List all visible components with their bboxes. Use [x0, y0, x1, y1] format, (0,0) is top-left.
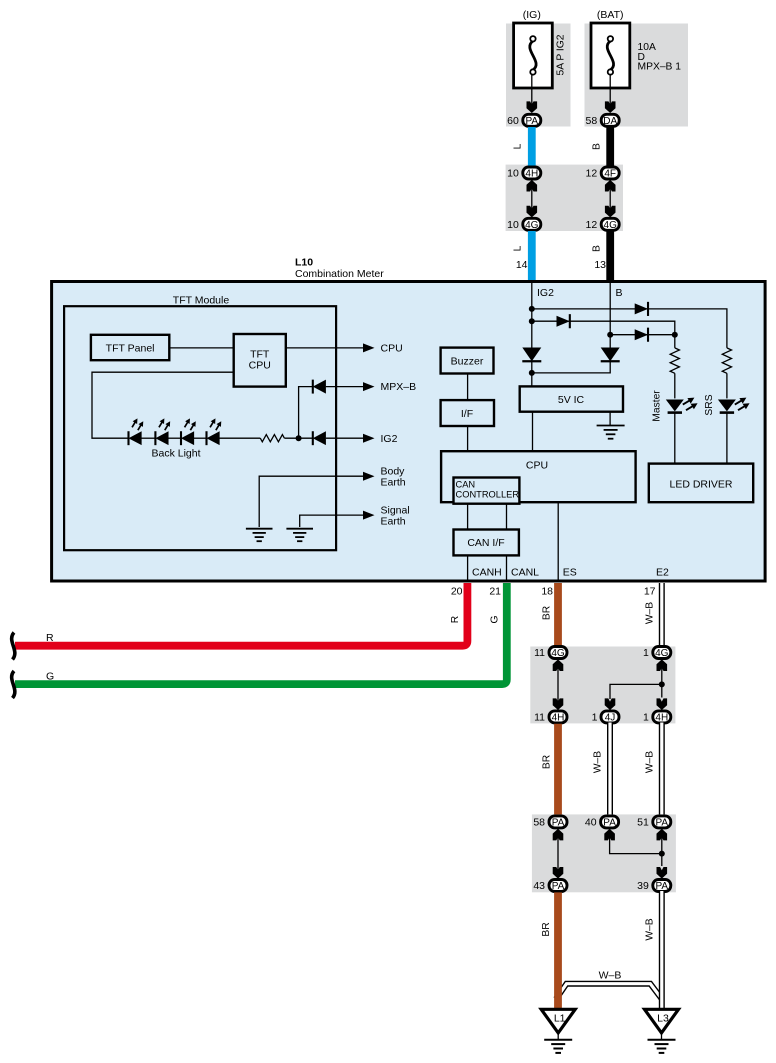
svg-text:R: R — [450, 616, 461, 623]
connector 4H pin 10 — [507, 167, 541, 180]
svg-text:PA: PA — [552, 818, 565, 829]
diode IG2 input — [313, 431, 326, 445]
svg-text:4J: 4J — [605, 713, 616, 724]
svg-text:PA: PA — [655, 818, 668, 829]
svg-text:CONTROLLER: CONTROLLER — [456, 490, 520, 500]
junction block shading — [530, 647, 675, 724]
svg-text:Back Light: Back Light — [151, 448, 200, 460]
svg-text:58: 58 — [533, 817, 545, 829]
fuse P IG2 (IG) — [514, 23, 553, 88]
svg-text:1: 1 — [643, 712, 649, 724]
backlight LED 3 — [181, 417, 198, 445]
diode on IG2-Master rail — [556, 314, 569, 328]
wire B (black) 4G to meter — [606, 231, 614, 280]
label TFT CPU — [249, 349, 271, 372]
wire SRS LED to LED driver — [726, 413, 728, 464]
svg-text:60: 60 — [507, 115, 519, 127]
TFT Module box — [64, 306, 336, 550]
svg-text:IG2: IG2 — [537, 287, 554, 299]
wire Master LED to LED driver — [674, 413, 676, 464]
connector PA pin 43 — [533, 880, 567, 893]
junction link 4G-4H — [553, 659, 564, 710]
connector PA pin 60 — [507, 114, 541, 127]
node 5V input — [529, 370, 535, 376]
LED DRIVER box — [649, 464, 753, 503]
connector 4G pin 1 — [643, 647, 671, 660]
svg-text:20: 20 — [451, 586, 463, 598]
svg-text:5V IC: 5V IC — [558, 394, 585, 406]
svg-text:1: 1 — [592, 712, 598, 724]
svg-text:SRS: SRS — [704, 394, 715, 415]
wire B diode to node — [532, 361, 610, 373]
wire LED4 to resistor — [220, 437, 261, 439]
connector 4F pin 12 — [586, 167, 620, 180]
connector PA pin 51 — [637, 816, 671, 829]
fuse D MPX-B (BAT) — [591, 23, 630, 88]
wire BR (ES) meter to 4G — [554, 583, 562, 646]
connector 4G pin 11 — [534, 647, 567, 660]
wire node to MPX-B diode — [299, 387, 313, 439]
label Body Earth — [381, 466, 406, 489]
svg-text:PA: PA — [655, 881, 668, 892]
wire L (blue) 4G to meter — [528, 231, 536, 280]
svg-text:Buzzer: Buzzer — [451, 355, 484, 367]
wire BR 4H to PA — [554, 724, 562, 815]
wire IG2 to SRS (top rail) — [532, 309, 727, 348]
arrow Signal Earth — [363, 511, 375, 520]
svg-text:CAN: CAN — [456, 480, 476, 490]
svg-text:B: B — [592, 143, 603, 150]
svg-text:CAN I/F: CAN I/F — [467, 537, 504, 549]
arrow CPU — [363, 343, 375, 352]
svg-text:BR: BR — [541, 606, 552, 620]
svg-text:11: 11 — [534, 712, 545, 724]
svg-text:18: 18 — [541, 586, 553, 598]
wire buzzer to I/F — [467, 374, 469, 401]
wire I/F to CPU — [467, 426, 469, 451]
svg-text:R: R — [46, 632, 54, 644]
svg-text:W–B: W–B — [593, 751, 604, 773]
wire W-B 4J to PA — [607, 723, 613, 818]
wire — [194, 437, 207, 439]
wire BR PA43 to L1 — [554, 892, 562, 1009]
wire IG2 to Master rail — [532, 321, 675, 335]
wire CAN controller to CAN I/F left — [467, 504, 469, 530]
svg-text:17: 17 — [644, 586, 656, 598]
svg-text:W–B: W–B — [645, 602, 656, 624]
I/F box — [441, 400, 494, 426]
svg-text:CANL: CANL — [511, 567, 539, 579]
resistor Master — [670, 348, 679, 373]
diode on IG2-SRS rail — [635, 302, 648, 316]
wire W-B crossover L1-L3 — [556, 984, 662, 999]
CAN I/F box — [454, 530, 519, 556]
wire TFT CPU to backlight — [92, 372, 234, 438]
svg-text:39: 39 — [637, 880, 649, 892]
svg-text:CPU: CPU — [526, 460, 548, 472]
svg-text:B: B — [616, 287, 623, 299]
node backlight junction — [296, 435, 302, 441]
svg-text:W–B: W–B — [599, 970, 622, 982]
fuse block shading (IG) — [506, 24, 571, 127]
connector PA pin 39 — [637, 880, 671, 893]
resistor backlight — [260, 435, 284, 442]
diode B to 5V — [601, 348, 620, 362]
break symbol R wire — [12, 633, 15, 660]
svg-text:MPX–B: MPX–B — [381, 381, 417, 393]
connector PA pin 58 — [533, 816, 567, 829]
backlight LED 1 — [129, 417, 146, 445]
connector 4H pin 11 — [534, 711, 567, 724]
svg-text:CPU: CPU — [381, 343, 403, 355]
node PA branch — [659, 851, 665, 857]
svg-text:21: 21 — [489, 586, 501, 598]
svg-text:4H: 4H — [525, 169, 538, 180]
TFT Panel box — [91, 335, 169, 360]
connector DA pin 58 — [586, 114, 620, 127]
LED SRS — [718, 395, 751, 413]
junction link 4H-4G — [527, 180, 538, 218]
connector 4G pin 12 — [586, 218, 620, 231]
svg-text:L10: L10 — [295, 257, 313, 269]
wire G (green CANL) — [15, 583, 507, 684]
wire — [674, 373, 676, 398]
svg-text:B: B — [592, 245, 603, 252]
wire B (black) DA to 4F — [606, 127, 614, 167]
svg-text:Master: Master — [652, 390, 663, 422]
svg-text:LED DRIVER: LED DRIVER — [669, 478, 732, 490]
wire CAN controller to CAN I/F right — [506, 504, 508, 530]
wire fuse BAT to DA — [609, 75, 611, 108]
wire W-B PA39 to L3 — [659, 891, 665, 1009]
TFT CPU box — [234, 334, 286, 387]
wire Master branch — [674, 335, 676, 348]
svg-text:1: 1 — [643, 647, 649, 659]
node Master rail join — [672, 332, 678, 338]
junction link 4F-4G — [605, 180, 616, 218]
svg-text:(IG): (IG) — [523, 9, 541, 21]
node IG2 rail1 — [529, 306, 535, 312]
ground point L3 — [645, 1009, 679, 1039]
svg-text:CPU: CPU — [249, 360, 271, 372]
svg-text:G: G — [489, 615, 500, 623]
svg-text:5A P IG2: 5A P IG2 — [556, 34, 567, 75]
wire ES from CPU — [557, 502, 559, 580]
ground signal earth — [286, 529, 313, 542]
svg-text:W–B: W–B — [645, 918, 656, 940]
resistor SRS — [722, 348, 731, 373]
arrow IG2 — [363, 434, 375, 443]
wire PA40/PA51 branch — [610, 835, 662, 866]
diode on B-Master rail — [635, 328, 648, 342]
svg-text:Earth: Earth — [381, 515, 406, 527]
svg-text:G: G — [46, 671, 54, 683]
svg-text:CANH: CANH — [472, 567, 502, 579]
ground point L1 — [541, 1009, 575, 1039]
ground body earth — [246, 529, 273, 542]
junction block shading — [506, 165, 623, 231]
svg-text:BR: BR — [541, 922, 552, 936]
svg-text:51: 51 — [637, 817, 649, 829]
wire CANH — [467, 555, 469, 580]
wire L (blue) PA to 4H — [528, 127, 536, 167]
node IG2 rail2 — [529, 318, 535, 324]
wire signal earth — [300, 515, 365, 527]
svg-text:4G: 4G — [655, 648, 669, 659]
wire 5V IC to CPU — [532, 412, 534, 452]
wire — [168, 437, 181, 439]
CAN CONTROLLER box — [454, 478, 520, 504]
wire IG2 diode to node — [531, 361, 533, 386]
ground 5V IC — [597, 426, 625, 439]
svg-text:TFT Panel: TFT Panel — [106, 342, 155, 354]
svg-text:W–B: W–B — [645, 751, 656, 773]
svg-text:L1: L1 — [554, 1013, 566, 1025]
wire CANL — [506, 555, 508, 580]
connector 4H pin 1 — [643, 711, 671, 724]
arrow MPX-B — [363, 382, 375, 391]
svg-text:11: 11 — [534, 647, 545, 659]
wire 5V IC to ground — [609, 412, 611, 426]
svg-text:13: 13 — [594, 259, 606, 271]
svg-text:10: 10 — [507, 168, 519, 180]
junction block shading — [532, 814, 676, 892]
5V IC box — [520, 386, 623, 411]
wire — [142, 437, 156, 439]
backlight LED 2 — [155, 417, 172, 445]
wire diode to IG2 arrow — [326, 437, 365, 439]
svg-text:10: 10 — [507, 219, 519, 231]
svg-text:L: L — [513, 245, 524, 251]
label CAN CONTROLLER — [456, 480, 520, 500]
svg-text:I/F: I/F — [461, 408, 473, 420]
wire fuse IG to PA — [531, 75, 533, 108]
ground L1 — [544, 1040, 572, 1053]
svg-text:14: 14 — [516, 259, 528, 271]
diode IG2 to 5V — [522, 348, 541, 362]
diode MPX-B input — [313, 380, 326, 394]
connector 4J pin 1 — [592, 711, 619, 724]
LED Master — [666, 395, 699, 413]
svg-text:MPX–B 1: MPX–B 1 — [638, 62, 682, 73]
label Signal Earth — [381, 504, 410, 527]
svg-text:IG2: IG2 — [381, 433, 398, 445]
wire TFT CPU to CPU arrow — [286, 347, 365, 349]
svg-text:PA: PA — [603, 818, 616, 829]
wire diode to MPX-B arrow — [326, 386, 365, 388]
wire W-B (E2) meter to 4G — [659, 583, 665, 648]
svg-text:Earth: Earth — [381, 477, 406, 489]
svg-text:12: 12 — [586, 168, 598, 180]
svg-text:TFT Module: TFT Module — [173, 295, 230, 307]
wire R (red CANH) — [15, 583, 467, 646]
arrow Body Earth — [363, 472, 375, 481]
svg-text:58: 58 — [586, 115, 598, 127]
svg-text:4F: 4F — [604, 169, 616, 180]
Buzzer box — [441, 348, 494, 374]
fuse block shading (BAT) — [585, 24, 689, 127]
svg-text:BR: BR — [541, 755, 552, 769]
svg-text:PA: PA — [552, 881, 565, 892]
junction link PA58-PA43 — [553, 829, 564, 879]
wire B to Master rail — [610, 334, 675, 336]
svg-text:4H: 4H — [552, 713, 565, 724]
node B rail — [607, 332, 613, 338]
net IG2 vertical — [531, 283, 533, 348]
wire body earth — [259, 476, 365, 527]
svg-text:L: L — [513, 143, 524, 149]
wire resistor to node — [284, 437, 312, 439]
combination meter L10 box — [52, 282, 766, 582]
wire — [726, 373, 728, 398]
svg-text:DA: DA — [603, 116, 617, 127]
svg-text:40: 40 — [585, 817, 597, 829]
fuse value 10A D MPX-B 1 — [638, 42, 682, 73]
svg-text:43: 43 — [533, 880, 545, 892]
CPU box — [441, 451, 635, 502]
connector 4G pin 10 — [507, 218, 541, 231]
wire TFT Panel to TFT CPU — [169, 347, 233, 349]
svg-text:4G: 4G — [525, 220, 539, 231]
svg-text:E2: E2 — [656, 567, 669, 579]
svg-text:ES: ES — [563, 567, 577, 579]
svg-text:(BAT): (BAT) — [597, 9, 624, 21]
svg-text:L3: L3 — [657, 1013, 669, 1025]
wire 4G to 4J/4H branch — [610, 666, 662, 699]
svg-text:Combination Meter: Combination Meter — [295, 268, 384, 280]
svg-text:4G: 4G — [604, 220, 618, 231]
svg-text:4G: 4G — [551, 648, 565, 659]
backlight LED 4 — [207, 417, 224, 445]
svg-text:12: 12 — [586, 219, 598, 231]
svg-text:PA: PA — [525, 116, 538, 127]
break symbol G wire — [12, 671, 15, 698]
net B vertical — [609, 283, 611, 348]
connector PA pin 40 — [585, 816, 619, 829]
node 4G branch — [659, 681, 665, 687]
ground L3 — [648, 1040, 676, 1053]
svg-text:4H: 4H — [655, 713, 668, 724]
wire W-B 4H to PA — [659, 723, 665, 818]
